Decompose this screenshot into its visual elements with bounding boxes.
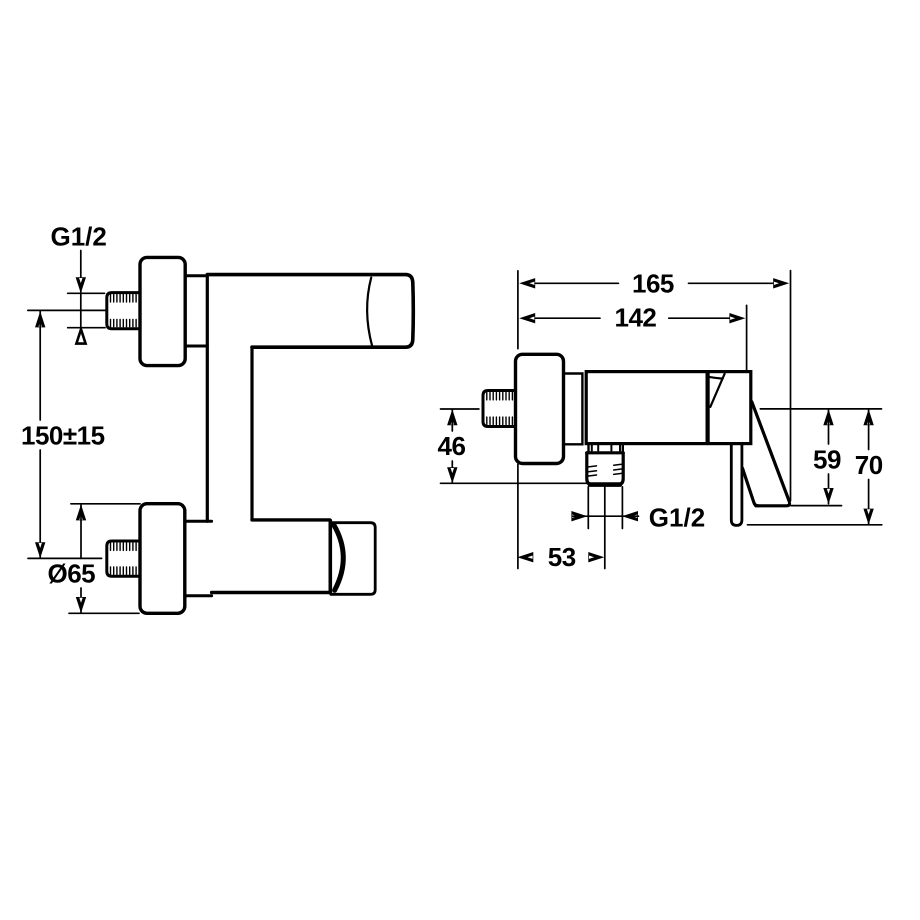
dimension G1/2 upper arrow (down) <box>76 277 86 293</box>
dimension 70 shaft upper <box>868 409 870 449</box>
svg-text:46: 46 <box>438 431 466 461</box>
dimension G1/2 shaft upper <box>80 251 82 293</box>
step side view <box>564 374 583 445</box>
outlet top bold line <box>587 451 623 454</box>
dimension 59 bottom arrow (down) <box>823 488 833 504</box>
G1/2 upper extension line <box>68 292 105 294</box>
dimension 53 left arrow (points left) <box>517 552 533 562</box>
dimension 165 right arrow <box>773 278 789 288</box>
vertical bar left edge <box>206 276 209 522</box>
142 right extension line <box>746 305 748 371</box>
inlet nipple side view <box>483 391 516 427</box>
handle cap diagonal <box>710 374 724 407</box>
dimension 165 line right <box>689 282 775 284</box>
top cylinder end arc <box>367 278 372 346</box>
svg-text:G1/2: G1/2 <box>51 222 107 252</box>
dimension 165 left arrow <box>519 278 535 288</box>
left extension line upper <box>517 271 519 349</box>
dimension Ø65 bottom arrow (down) <box>76 597 86 613</box>
bottom cylinder end bold line <box>328 521 332 593</box>
dimension G1/2 right tail <box>623 515 639 517</box>
dimension 46 top arrow (up) <box>447 409 457 425</box>
dimension G1/2 lower arrow (up, open) <box>76 329 85 343</box>
bottom nipple thread hatching <box>111 543 137 574</box>
dimension Ø65 shaft upper <box>80 505 82 558</box>
outlet block bottom heavy edge <box>590 482 620 487</box>
handle blade upper diagonal <box>752 402 790 502</box>
bottom cylinder bottom edge <box>212 591 330 594</box>
dimension 142 right arrow <box>729 313 745 323</box>
outlet threaded block <box>587 453 623 485</box>
dimension G1/2 line <box>587 515 622 517</box>
main body side view <box>586 372 751 444</box>
bottom nipple axis reference line <box>28 557 102 559</box>
dimension 46 bottom arrow (down) <box>447 467 457 483</box>
top inlet nipple <box>107 293 140 329</box>
G1/2 left extension line <box>587 487 589 529</box>
top cylinder body <box>207 275 413 348</box>
svg-text:150±15: 150±15 <box>21 421 105 451</box>
dimension 59 top arrow (up) <box>823 409 833 425</box>
dimension Ø65 top arrow (up) <box>76 504 86 520</box>
svg-text:53: 53 <box>548 542 576 572</box>
70 bottom extension line <box>748 524 882 526</box>
vertical bar right edge <box>250 347 253 520</box>
dimension G1/2 left arrow (points right) <box>571 511 587 521</box>
dimension 142 line left <box>535 317 600 319</box>
bottom inlet nipple <box>107 541 140 576</box>
dimension 59 shaft lower <box>828 474 830 504</box>
G1/2 lower extension line <box>68 327 105 329</box>
46 top extension line <box>441 408 479 410</box>
dimension 46 shaft lower <box>451 461 453 483</box>
dimension 70 shaft lower <box>868 480 870 525</box>
top step top edge <box>185 274 207 277</box>
dimension 150±15 shaft upper <box>39 311 41 420</box>
outlet neck thread ticks <box>592 445 620 451</box>
wall flange side view <box>516 354 564 463</box>
dimension G1/2 shaft between <box>80 293 82 327</box>
dimension G1/2 right arrow (points left) <box>622 511 638 521</box>
59 bottom extension line <box>791 505 842 507</box>
46 bottom extension line <box>441 482 587 484</box>
dimension Ø65 shaft lower <box>80 588 82 613</box>
dimension 150±15 bottom arrow (down) <box>35 542 45 558</box>
dimension 53 right arrow (points right) <box>588 552 604 562</box>
bottom cylinder top edge <box>252 518 330 521</box>
bottom step bottom edge <box>185 594 212 597</box>
top nipple thread hatching <box>111 295 137 327</box>
handle cap small arc <box>709 377 723 379</box>
svg-text:59: 59 <box>813 444 841 474</box>
dimension 165 line left <box>535 282 618 284</box>
dimension G1/2 left tail <box>573 515 587 517</box>
dimension 70 top arrow (up) <box>863 409 873 425</box>
outlet neck right edge <box>622 444 624 453</box>
handle blade left edge <box>743 468 759 506</box>
svg-text:70: 70 <box>855 450 883 480</box>
dimension 46 shaft upper <box>451 409 453 431</box>
svg-text:Ø65: Ø65 <box>48 559 96 589</box>
left extension line lower <box>517 464 519 568</box>
outlet thread ticks right <box>614 464 622 474</box>
top nipple axis reference line <box>28 309 106 311</box>
59 and 70 top extension line <box>760 408 881 410</box>
outlet thread ticks left <box>589 466 597 476</box>
svg-text:142: 142 <box>615 302 657 332</box>
outlet centre line <box>604 487 606 569</box>
dimension 150±15 shaft lower <box>39 450 41 558</box>
G1/2 right extension line <box>621 487 623 529</box>
nipple side view thread hatching <box>487 393 513 425</box>
dimension 142 left arrow <box>519 313 535 323</box>
outlet neck left edge <box>587 444 589 453</box>
dimension 150±15 top arrow (up) <box>35 311 45 327</box>
handle stick <box>731 444 742 525</box>
top step bottom edge <box>185 345 207 348</box>
svg-text:G1/2: G1/2 <box>649 502 705 532</box>
dimension 59 shaft upper <box>828 409 830 444</box>
Ø65 top extension line <box>71 503 140 505</box>
dimension 142 line right <box>669 317 733 319</box>
dimension 70 bottom arrow (down) <box>863 509 873 525</box>
handle cap parting bold line <box>705 373 709 443</box>
165 right extension line <box>790 271 792 501</box>
svg-text:165: 165 <box>632 269 674 299</box>
bottom end cap heavy arc <box>334 524 344 590</box>
bottom wall flange <box>140 504 185 614</box>
bottom end cap <box>331 523 375 595</box>
bottom step top edge <box>185 520 212 523</box>
Ø65 bottom extension line <box>69 612 139 614</box>
top wall flange <box>140 257 185 365</box>
handle blade bottom edge <box>756 504 790 506</box>
